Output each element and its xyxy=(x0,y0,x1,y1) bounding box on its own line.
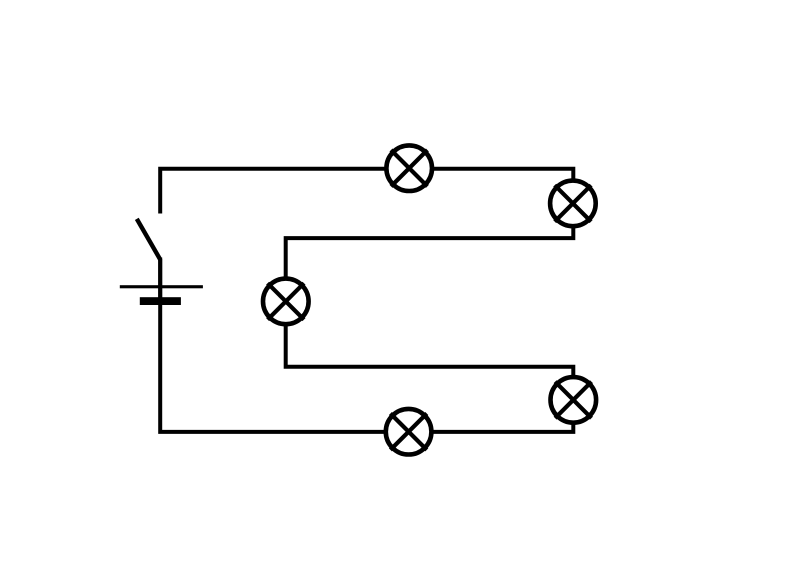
battery B1 long plate xyxy=(120,285,203,288)
lamp L3 xyxy=(263,279,309,325)
wire: switch to battery lead xyxy=(158,258,162,301)
lamp L1 xyxy=(386,145,432,191)
lamp L5 xyxy=(386,409,432,455)
wire: serpentine series loop xyxy=(160,169,573,432)
lamp L2 xyxy=(550,181,596,227)
lamp L4 xyxy=(551,377,597,423)
battery B1 short thick plate xyxy=(140,297,181,305)
switch S1 blade xyxy=(137,219,160,260)
